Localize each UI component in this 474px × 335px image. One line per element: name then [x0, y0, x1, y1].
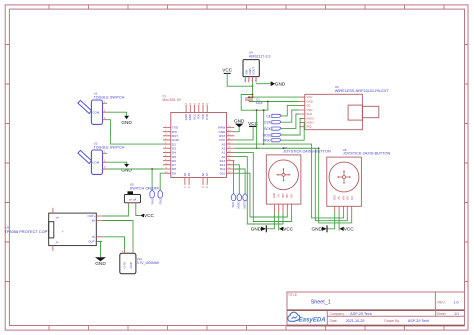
battery U10 body — [120, 253, 136, 273]
ground flag U8 — [311, 225, 327, 232]
toggle switch U1 label — [94, 92, 125, 100]
net port MISO — [237, 193, 242, 208]
ground flag U1 — [121, 116, 132, 125]
battery U10 label — [137, 257, 160, 265]
svg-text:GND: GND — [95, 261, 106, 266]
svg-text:1/1: 1/1 — [454, 312, 459, 316]
svg-text:VCC: VCC — [144, 213, 155, 218]
svg-text:B+: B+ — [92, 219, 96, 223]
wire U2 COM to GND — [107, 162, 126, 164]
wire U8 pin1 to GND — [327, 213, 335, 229]
joystick U8 pin labels — [335, 195, 354, 200]
MCU P1 body — [171, 113, 227, 178]
MCU right pins — [227, 128, 235, 174]
svg-text:+5V: +5V — [279, 193, 281, 198]
joystick U8 body — [327, 157, 362, 206]
wire U5 right pin to VCC — [136, 205, 141, 216]
joystick U8 label — [343, 148, 391, 155]
svg-text:WIRELESS-NRF24L01-PA-EXT: WIRELESS-NRF24L01-PA-EXT — [335, 89, 390, 93]
svg-text:VRX: VRX — [283, 193, 285, 198]
MCU left pin labels — [172, 126, 180, 176]
ground flag charger — [95, 257, 106, 266]
net flag CE — [266, 114, 281, 118]
wire D13 to SCK port — [233, 161, 236, 194]
svg-text:GND: GND — [335, 195, 337, 200]
wire U7 pin2 to VCC — [278, 213, 280, 231]
ground flag U4 — [271, 81, 286, 86]
MCU top pins — [186, 105, 207, 113]
charger module U9 label — [5, 226, 51, 235]
svg-text:MISO: MISO — [237, 201, 241, 209]
svg-text:SWITCH-ON/OFF: SWITCH-ON/OFF — [130, 186, 160, 190]
wire D11 to MOSI port — [234, 169, 245, 193]
wire SW1 to D8 net — [151, 169, 153, 190]
svg-text:VCC: VCC — [222, 68, 233, 73]
svg-text:GND: GND — [129, 262, 133, 268]
net flag SCK — [264, 127, 281, 131]
MCU right pin labels — [218, 126, 226, 176]
svg-text:CE: CE — [307, 104, 311, 108]
charger module U9 body — [49, 213, 97, 246]
joystick U7 cross — [277, 169, 289, 181]
svg-text:3.7V_1000MAH: 3.7V_1000MAH — [137, 261, 160, 265]
svg-text:Company:: Company: — [330, 312, 346, 316]
wire A1 to joystick U7 pin5 — [234, 152, 291, 221]
svg-text:SCK: SCK — [231, 202, 235, 208]
svg-text:IRQ: IRQ — [307, 125, 313, 129]
svg-text:d+: d+ — [56, 216, 60, 220]
wire MOSI to module — [281, 118, 305, 135]
joystick U7 body — [266, 155, 301, 204]
title block texts — [288, 293, 459, 323]
svg-text:A7: A7 — [205, 172, 209, 176]
wire D12 to MISO port — [234, 165, 239, 194]
MCU bottom pins — [185, 178, 207, 185]
wire VCC rail to module pin1 — [249, 96, 299, 98]
wireless module U6 pins — [299, 97, 305, 127]
svg-text:MOSI: MOSI — [243, 201, 247, 208]
svg-text:CE: CE — [266, 114, 271, 118]
wire U4 VOUT down — [252, 83, 254, 98]
toggle switch U2 — [78, 150, 107, 174]
svg-text:JOYSTICK-2AXIS-BUTTON: JOYSTICK-2AXIS-BUTTON — [343, 152, 391, 156]
charger module right pins — [96, 216, 102, 241]
ground flag U2 — [121, 164, 132, 173]
joystick U7 knob circle — [269, 160, 299, 190]
svg-text:TOGGLE SWITCH: TOGGLE SWITCH — [94, 145, 125, 149]
svg-text:GND: GND — [234, 119, 245, 124]
switch U5 label — [130, 183, 160, 191]
junction — [248, 96, 250, 98]
svg-text:Date:: Date: — [330, 319, 338, 323]
svg-text:GND: GND — [274, 193, 276, 198]
svg-text:D9: D9 — [172, 171, 176, 175]
charger module top-left pin — [52, 208, 54, 213]
svg-text:B-: B- — [93, 235, 96, 239]
net port SW1 — [150, 190, 154, 205]
svg-text:REV:: REV: — [437, 301, 445, 305]
wire loop down to rails — [256, 110, 258, 148]
wire U7 pin1 to GND — [266, 213, 274, 229]
svg-text:EasyEDA: EasyEDA — [299, 317, 326, 324]
svg-text:VCC: VCC — [307, 95, 313, 99]
joystick U8 pins — [335, 206, 352, 212]
power flag VCC (regulator input) — [222, 68, 233, 74]
power flag VCC (U8) — [340, 227, 355, 232]
wireless module U6 label — [335, 85, 390, 93]
junction — [151, 168, 153, 170]
battery pins — [125, 249, 134, 253]
wire A2 rail to joystick U8 pin4 — [234, 148, 347, 220]
joystick U7 pin labels — [274, 193, 293, 198]
svg-text:-: - — [130, 249, 131, 253]
net flag CSN — [264, 121, 281, 125]
junction — [252, 94, 254, 96]
regulator U4 label — [249, 51, 270, 59]
net port MOSI — [243, 193, 248, 208]
wire A0 to joystick U7 pin3 — [234, 157, 283, 224]
svg-text:+: + — [62, 230, 64, 234]
svg-text:VIN: VIN — [245, 70, 249, 75]
power flag VCC (MCU) — [248, 121, 259, 126]
joystick U7 label — [283, 146, 331, 153]
svg-text:SW1: SW1 — [150, 198, 154, 205]
svg-text:GND: GND — [251, 227, 262, 232]
svg-text:D10: D10 — [220, 171, 226, 175]
svg-text:VCC: VCC — [248, 121, 259, 126]
svg-text:GND: GND — [248, 68, 252, 74]
svg-text:OUT-: OUT- — [88, 240, 95, 244]
wire OUT- to GND — [96, 241, 100, 257]
junction — [252, 85, 254, 87]
MCU P1 labels — [163, 94, 182, 102]
wire CE to module — [281, 106, 299, 116]
wire MCU GND pin to flag — [234, 127, 239, 132]
svg-text:Drawn By:: Drawn By: — [384, 319, 400, 323]
svg-text:Sheet_1: Sheet_1 — [311, 300, 331, 306]
svg-text:AMS1117-3.3: AMS1117-3.3 — [249, 55, 270, 59]
svg-text:JOYSTICK-2AXIS-BUTTON: JOYSTICK-2AXIS-BUTTON — [283, 149, 331, 153]
wire A3 rail to joystick U8 pin3 — [234, 144, 343, 218]
wire rail branch to joystick U8 pin5 — [319, 148, 352, 223]
joystick U8 cross — [338, 171, 350, 183]
svg-text:SW2: SW2 — [158, 198, 162, 205]
power flag VCC (U7) — [279, 227, 294, 232]
MCU top pin labels — [184, 113, 209, 120]
charger module bottom-left pin — [52, 246, 54, 251]
frame ticks right — [465, 45, 469, 282]
svg-text:COM: COM — [92, 161, 100, 165]
wire GND net loop — [241, 95, 268, 111]
wire SCK to module — [281, 114, 299, 129]
net flag MOSI — [263, 133, 281, 137]
svg-text:VRY: VRY — [287, 193, 289, 198]
toggle switch U2 label — [94, 142, 125, 150]
wire U8 pin2 to VCC — [338, 213, 340, 231]
wire U2 pin3 to P1 D8 — [107, 168, 163, 170]
wireless module U6 body — [305, 94, 363, 129]
svg-text:Sheet:: Sheet: — [437, 312, 446, 316]
svg-text:GND: GND — [275, 81, 286, 86]
power flag VCC (U5) — [140, 213, 154, 218]
svg-text:GND: GND — [121, 120, 132, 125]
frame ticks top — [49, 5, 444, 9]
svg-text:SCK: SCK — [264, 127, 272, 131]
svg-text:GND: GND — [121, 168, 132, 173]
wire CSN to module — [281, 110, 299, 122]
svg-text:2021-10-29: 2021-10-29 — [346, 319, 365, 323]
wire MCU VCC pin to flag — [234, 126, 253, 140]
svg-text:d-: d- — [56, 240, 59, 244]
switch U5 — [124, 191, 140, 205]
svg-text:SCK: SCK — [307, 112, 313, 116]
net port SW2 — [158, 190, 162, 205]
junction — [267, 101, 269, 103]
wire D10 to joystick U7 pin4 — [234, 173, 287, 217]
svg-text:VCC: VCC — [344, 227, 355, 232]
svg-text:CSN: CSN — [264, 121, 272, 125]
wire B- to battery — [102, 237, 124, 250]
svg-text:TOGGLE SWITCH: TOGGLE SWITCH — [94, 95, 125, 99]
MCU left pins — [163, 128, 171, 174]
svg-text:TP4056 PROTECT COPY: TP4056 PROTECT COPY — [5, 229, 51, 234]
wire B+ to battery — [102, 221, 133, 250]
svg-text:VCC: VCC — [283, 227, 294, 232]
wire U5 left pin to TP4056 OUT+ — [102, 205, 128, 216]
svg-text:1.0: 1.0 — [453, 301, 458, 305]
wire SW2 to D9 — [160, 173, 163, 189]
frame ticks bottom — [49, 326, 444, 331]
capacitor C1 — [245, 97, 263, 105]
toggle switch U1 — [78, 100, 107, 124]
svg-text:GND: GND — [311, 227, 322, 232]
ground flag MCU (above right pins) — [234, 119, 245, 128]
joystick U7 pins — [274, 204, 291, 213]
svg-text:VRX: VRX — [343, 195, 345, 200]
svg-text:A5: A5 — [187, 172, 191, 176]
svg-text:TITLE:: TITLE: — [288, 293, 298, 297]
net flag MISO — [263, 139, 281, 143]
regulator U4 — [243, 60, 259, 83]
svg-text:DTR: DTR — [205, 114, 209, 120]
MCU pin numbers — [165, 104, 231, 189]
wire GND rail to module pin2 — [268, 101, 299, 103]
net port SCK — [231, 193, 236, 207]
wire U4 GND pin to ground flag — [256, 83, 271, 85]
svg-text:Mini 328- 5V: Mini 328- 5V — [163, 98, 182, 102]
wire VCC to U4 VIN — [227, 73, 252, 86]
wire U1 pin3 to P1 D2 — [107, 120, 163, 144]
wire MISO to module — [281, 122, 305, 140]
EasyEDA logo — [288, 312, 326, 323]
MCU bottom pin labels — [183, 172, 209, 176]
wireless module U6 pin labels — [307, 95, 315, 129]
svg-text:OUT+: OUT+ — [87, 214, 95, 218]
svg-text:VOUT: VOUT — [252, 67, 256, 75]
title block — [287, 292, 465, 326]
svg-text:ASP-29 Tech: ASP-29 Tech — [408, 319, 429, 323]
wire U1 COM to GND — [107, 112, 126, 116]
svg-text:ASP-29 Tech: ASP-29 Tech — [350, 312, 371, 316]
frame ticks left — [5, 45, 9, 282]
svg-text:VRY: VRY — [348, 195, 350, 200]
charger module USB connector — [49, 222, 54, 238]
svg-text:on off: on off — [129, 197, 137, 201]
joystick U8 knob circle — [329, 162, 359, 192]
svg-text:COM: COM — [92, 111, 100, 115]
wireless module antenna — [348, 105, 379, 120]
ground flag U7 — [251, 225, 267, 232]
svg-text:+: + — [121, 249, 123, 253]
svg-text:+3.7V: +3.7V — [122, 262, 126, 270]
junction — [252, 96, 254, 98]
svg-text:+5V: +5V — [339, 196, 341, 201]
